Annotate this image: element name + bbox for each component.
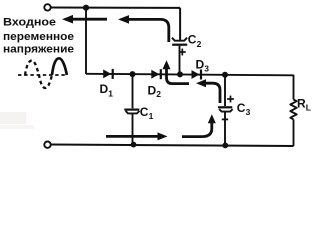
capacitor C1	[124, 74, 139, 144]
svg-text:1: 1	[108, 89, 113, 99]
wire: left vertical branch	[85, 8, 87, 74]
minus sign C3	[222, 118, 228, 120]
wire: right vertical upper	[293, 75, 295, 100]
capacitor C3	[218, 75, 233, 146]
svg-text:напряжение: напряжение	[3, 44, 74, 56]
node: junction C1/bottom rail	[131, 142, 137, 148]
svg-text:D: D	[100, 82, 109, 96]
node: junction D3/C3	[222, 72, 228, 78]
svg-text:D: D	[148, 84, 157, 98]
sine wave axis (dashed)	[18, 74, 67, 76]
current arrow: below D3 J-curve pointing left	[196, 79, 220, 103]
terminal: top input (open circle)	[44, 4, 50, 10]
node: junction C3/bottom rail	[222, 143, 228, 149]
current arrow: bottom-left pointing right	[106, 132, 168, 140]
node: junction at top wire / left branch	[83, 5, 89, 11]
plus sign C3	[227, 96, 234, 103]
current arrow: bottom-middle curving up toward C3	[182, 114, 216, 136]
wire: main horizontal rail	[86, 74, 294, 76]
current arrow: top-middle J-curve pointing left	[118, 15, 169, 42]
node: junction D1/C1	[130, 71, 136, 77]
capacitor C2	[172, 8, 187, 75]
svg-text:D: D	[196, 58, 205, 72]
svg-text:переменное: переменное	[3, 31, 74, 43]
label: input AC voltage text	[3, 16, 74, 55]
terminal: bottom input (open circle)	[44, 142, 50, 148]
svg-text:3: 3	[204, 64, 209, 74]
wire: bottom horizontal rail	[51, 145, 294, 147]
svg-text:C: C	[237, 101, 246, 115]
diode D1	[103, 69, 114, 79]
wire: right vertical lower	[293, 119, 295, 146]
sine wave solid half-cycle	[52, 58, 67, 75]
svg-text:2: 2	[197, 39, 202, 49]
svg-text:C: C	[188, 33, 197, 47]
plus sign C2	[179, 49, 186, 56]
wire: top horizontal	[51, 7, 180, 9]
svg-text:3: 3	[246, 107, 251, 117]
svg-text:L: L	[306, 103, 311, 113]
faint scan smudges	[0, 112, 26, 124]
current arrow: top-left pointing left	[62, 15, 107, 24]
svg-text:1: 1	[149, 111, 154, 121]
current arrow: up toward C2	[163, 60, 190, 83]
svg-text:C: C	[140, 105, 149, 119]
svg-text:Входное: Входное	[3, 16, 56, 28]
diode D3	[192, 70, 203, 80]
resistor RL (zigzag)	[290, 100, 296, 120]
svg-text:2: 2	[156, 89, 161, 99]
diode D2	[151, 69, 162, 79]
node: junction D2/C2	[177, 71, 183, 77]
sine wave dashed cycle	[25, 61, 52, 89]
svg-text:R: R	[297, 97, 306, 111]
